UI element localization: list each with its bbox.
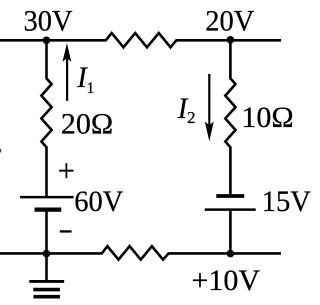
- svg-text:10Ω: 10Ω: [241, 101, 293, 134]
- svg-text:+10V: +10V: [192, 264, 261, 297]
- svg-text:20Ω: 20Ω: [61, 108, 113, 141]
- svg-text:30V: 30V: [24, 5, 73, 38]
- svg-text:+: +: [58, 153, 75, 189]
- svg-text:2: 2: [187, 108, 196, 127]
- svg-text:1: 1: [87, 80, 95, 97]
- svg-text:20V: 20V: [205, 5, 254, 38]
- svg-text:60V: 60V: [74, 186, 123, 219]
- svg-text:15V: 15V: [262, 186, 311, 219]
